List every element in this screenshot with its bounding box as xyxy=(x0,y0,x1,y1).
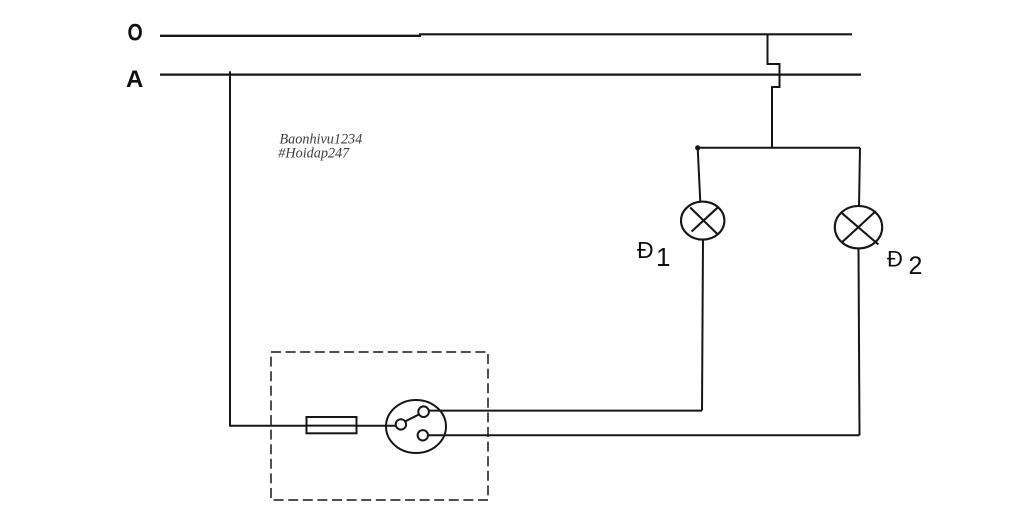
wire fuse to switch xyxy=(357,425,397,427)
switch terminal common xyxy=(396,419,406,429)
wire A-drop to fuse xyxy=(229,425,307,427)
wire to lamp D2 xyxy=(859,148,860,207)
wire to lamp D1 xyxy=(698,148,701,202)
power line O xyxy=(160,34,852,36)
switch enclosure dashed box xyxy=(271,352,488,500)
wire switch to lamp D2 xyxy=(428,434,860,436)
switch body xyxy=(386,400,446,453)
svg-text:Đ: Đ xyxy=(637,237,654,263)
switch contact bar xyxy=(405,414,420,421)
switch terminal 1 xyxy=(418,406,429,417)
wire switch to lamp D1 xyxy=(429,410,702,412)
lamp D2 xyxy=(835,206,882,248)
wire lamp D2 down xyxy=(859,248,860,435)
svg-text:O: O xyxy=(128,20,143,47)
svg-text:1: 1 xyxy=(656,242,670,272)
lamp D1 xyxy=(681,202,724,240)
power line A xyxy=(160,73,861,75)
fuse F1 xyxy=(307,417,357,433)
wire branch bar xyxy=(698,147,861,149)
node junction dot xyxy=(695,145,700,150)
svg-text:Đ: Đ xyxy=(887,246,903,271)
switch terminal 2 xyxy=(418,430,428,440)
svg-text:A: A xyxy=(126,66,143,93)
wire from O with crossover jog over line A xyxy=(768,35,780,149)
svg-text:#Hoidap247: #Hoidap247 xyxy=(278,145,350,161)
wire lamp D1 to switch (bottom) xyxy=(702,240,703,411)
wire drop from line A xyxy=(229,71,231,425)
svg-text:2: 2 xyxy=(909,252,923,280)
